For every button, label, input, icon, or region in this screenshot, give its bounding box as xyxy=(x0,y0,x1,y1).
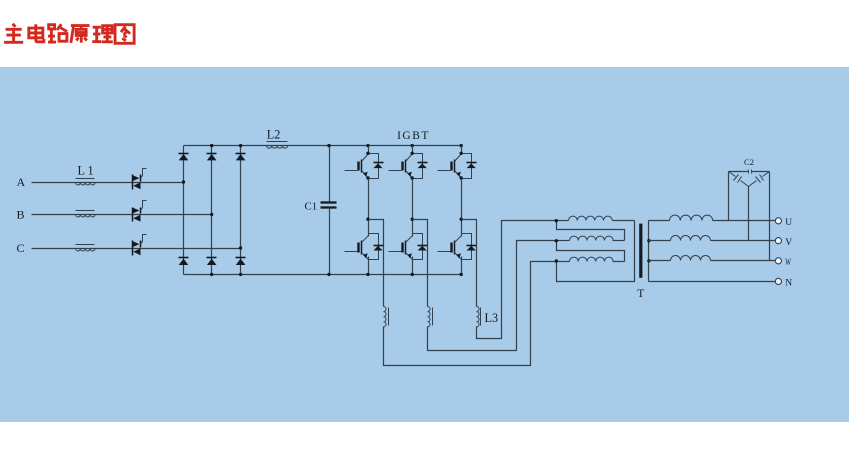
junction top rail IGBT leg 2 xyxy=(411,144,414,147)
wire secondary star bus xyxy=(648,221,650,282)
svg-text:IGBT: IGBT xyxy=(397,130,430,142)
wire leg 2 to transformer xyxy=(428,241,557,351)
wire C2 to V xyxy=(748,187,750,241)
terminal N xyxy=(775,278,781,284)
junction bottom rail leg3 xyxy=(239,273,242,276)
junction bottom rail IGBT leg 3 xyxy=(460,273,463,276)
wire primary delta outer xyxy=(557,221,635,282)
IGBT Q4 (bottom) with diode xyxy=(369,234,379,260)
junction bottom rail IGBT leg 2 xyxy=(411,273,414,276)
inductor L1 phase C xyxy=(76,249,96,251)
svg-text:W: W xyxy=(785,258,791,268)
wire phase A xyxy=(32,182,184,184)
wire leg 3 to transformer xyxy=(477,221,557,339)
svg-text:C1: C1 xyxy=(305,200,318,212)
junction secondary V xyxy=(647,239,650,242)
inductor L1 phase B xyxy=(76,215,96,217)
wire IGBT leg 1 midpoint xyxy=(368,179,370,237)
wire IGBT leg 1 collector xyxy=(368,146,370,155)
IGBT Q2 (top) with diode xyxy=(413,154,423,179)
junction primary node 1 xyxy=(555,219,558,222)
wire C2 to W xyxy=(769,172,771,261)
junction top rail leg2 xyxy=(210,144,213,147)
junction midpoint leg 1 xyxy=(366,218,369,221)
wire IGBT leg 3 emitter xyxy=(461,257,463,275)
terminal U xyxy=(775,218,781,224)
wire neutral N xyxy=(649,281,776,283)
svg-text:L 1: L 1 xyxy=(78,164,94,178)
diode D1 (top) xyxy=(179,153,189,155)
transformer T core xyxy=(639,224,642,278)
capacitor C2 left xyxy=(729,172,736,177)
diode D5 (bottom) xyxy=(207,257,217,259)
junction midpoint leg 2 xyxy=(411,218,414,221)
thyristor pair phase B xyxy=(132,207,139,213)
junction C1 bottom xyxy=(327,273,330,276)
IGBT Q1 (top) with diode xyxy=(369,154,379,179)
inductor L3 leg 1 xyxy=(384,307,387,327)
junction secondary W xyxy=(647,259,650,262)
capacitor C2 top xyxy=(729,171,749,173)
svg-text:A: A xyxy=(17,175,26,189)
junction phase B to bridge xyxy=(210,213,213,216)
junction phase C to bridge xyxy=(239,246,242,249)
terminal V xyxy=(775,238,781,244)
junction top rail IGBT leg 1 xyxy=(366,144,369,147)
wire phase B xyxy=(32,214,212,216)
transformer T primary winding 2 xyxy=(557,240,570,242)
diode D3 (top) xyxy=(236,153,246,155)
wire primary delta link 2 xyxy=(557,241,625,262)
svg-text:L3: L3 xyxy=(485,311,499,325)
junction phase A to bridge xyxy=(182,180,185,183)
thyristor pair phase A xyxy=(132,175,139,181)
diode D2 (top) xyxy=(207,153,217,155)
wire phase output leg 1 xyxy=(369,220,384,307)
diode D4 (bottom) xyxy=(179,257,189,259)
wire leg 1 to transformer xyxy=(384,262,557,366)
transformer T primary winding 3 xyxy=(557,261,570,263)
wire IGBT leg 2 emitter xyxy=(412,257,414,275)
bridge leg 1 wire xyxy=(183,146,185,275)
capacitor C2 right xyxy=(763,172,770,177)
inductor L3 leg 3 xyxy=(477,307,480,327)
svg-text:T: T xyxy=(637,288,644,300)
wire phase C xyxy=(32,248,241,250)
svg-text:B: B xyxy=(17,207,25,221)
wire primary delta link 1 xyxy=(557,221,625,241)
junction primary node 3 xyxy=(555,259,558,262)
title 主电路原理图 (drawn strokes) xyxy=(4,24,134,44)
wire IGBT leg 3 midpoint xyxy=(461,179,463,237)
svg-text:C2: C2 xyxy=(744,157,754,167)
bridge leg 2 wire xyxy=(211,146,213,275)
svg-text:N: N xyxy=(785,279,792,289)
svg-text:U: U xyxy=(785,218,792,228)
transformer T secondary winding W xyxy=(649,260,671,262)
wire phase output leg 2 xyxy=(413,220,428,307)
junction primary node 2 xyxy=(555,239,558,242)
svg-text:V: V xyxy=(785,238,792,248)
svg-text:C: C xyxy=(17,241,25,255)
transformer T secondary winding V xyxy=(649,240,671,242)
blue schematic panel xyxy=(0,67,849,422)
wire IGBT leg 3 collector xyxy=(461,146,463,155)
svg-text:L2: L2 xyxy=(267,128,281,142)
junction bottom rail IGBT leg 1 xyxy=(366,273,369,276)
terminal W xyxy=(775,258,781,264)
junction top rail IGBT leg 3 xyxy=(460,144,463,147)
transformer T secondary winding U xyxy=(649,220,670,222)
IGBT Q5 (bottom) with diode xyxy=(413,234,423,260)
junction midpoint leg 3 xyxy=(460,218,463,221)
junction C1 top xyxy=(327,144,330,147)
junction top rail leg3 xyxy=(239,144,242,147)
IGBT Q3 (top) with diode xyxy=(462,154,472,179)
IGBT Q6 (bottom) with diode xyxy=(462,234,472,260)
bridge leg 3 wire xyxy=(240,146,242,275)
transformer T primary winding 1 xyxy=(557,220,569,222)
inductor L3 leg 2 xyxy=(428,307,431,327)
junction bottom rail leg2 xyxy=(210,273,213,276)
wire IGBT leg 2 midpoint xyxy=(412,179,414,237)
wire phase output leg 3 xyxy=(462,220,477,307)
rectifier top rail xyxy=(184,145,462,147)
wire IGBT leg 2 collector xyxy=(412,146,414,155)
wire C2 to U xyxy=(728,172,730,221)
diode D6 (bottom) xyxy=(236,257,246,259)
rectifier bottom rail xyxy=(184,274,462,276)
wire IGBT leg 1 emitter xyxy=(368,257,370,275)
thyristor pair phase C xyxy=(132,241,139,247)
